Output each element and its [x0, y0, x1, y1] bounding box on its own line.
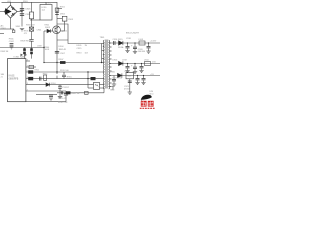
wire snubber loop: [57, 24, 68, 40]
svg-text:6: 6: [27, 71, 28, 73]
wire zener drop lower: [59, 88, 61, 96]
svg-text:T901: T901: [100, 37, 106, 39]
capacitor C927: [136, 79, 140, 80]
watermark caption: [140, 107, 155, 109]
capacitor C902: [10, 44, 14, 46]
wire secondary stub y86.5: [109, 87, 113, 91]
svg-text:C902: C902: [9, 41, 15, 43]
ground under C912: [49, 98, 53, 100]
junction x44 y62.5: [43, 62, 44, 63]
svg-text:KA3S: KA3S: [9, 75, 15, 78]
svg-text:220V: 220V: [1, 28, 7, 30]
svg-text:C906: C906: [25, 14, 31, 16]
junction rail1 C921: [148, 42, 149, 43]
svg-text:PC817: PC817: [63, 87, 70, 89]
regulator IC902: [126, 72, 134, 79]
wire B plus feed to primary: [68, 40, 102, 44]
svg-text:R916 2.2K: R916 2.2K: [58, 102, 68, 104]
wire filter box top link: [45, 2, 47, 4]
svg-text:D903: D903: [45, 27, 51, 29]
svg-text:R911: R911: [35, 70, 39, 72]
junction rail2 C925: [134, 63, 135, 64]
junction rail2 C926: [141, 63, 142, 64]
svg-text:15V: 15V: [152, 61, 156, 63]
resistor R909: [23, 48, 26, 51]
svg-text:T901: T901: [46, 2, 52, 4]
wire IC pin rail Vcc y72: [26, 71, 104, 73]
watermark char 2 strokes: [148, 101, 153, 106]
resistor R915 series: [91, 77, 96, 80]
wire branch R901: [57, 8, 62, 10]
svg-text:100/160: 100/160: [138, 51, 146, 53]
wire bridge top to rail: [10, 2, 12, 5]
resistor R910: [30, 48, 33, 51]
inductor L903: [139, 41, 145, 45]
wire IC pin8 stub: [26, 60, 30, 62]
capacitor C906: [20, 14, 24, 16]
wire NTC branch lower: [31, 19, 33, 20]
resistor R910b: [30, 52, 33, 55]
wire C911 top lead: [65, 91, 67, 93]
wire C924 drop: [127, 64, 129, 71]
junction x88 y78.6: [87, 78, 88, 79]
junction x44 y47.5: [43, 47, 44, 48]
wire rail to C903: [57, 18, 62, 20]
bridge rectifier D901: [4, 5, 17, 18]
wire IC pin rail y78.6: [26, 78, 104, 80]
junction bridge right: [21, 11, 22, 12]
svg-text:W.cn: W.cn: [150, 93, 154, 95]
svg-text:C919: C919: [122, 59, 128, 61]
svg-text:R906 472: R906 472: [26, 25, 36, 27]
diode D903: [47, 29, 51, 33]
svg-text:4: 4: [27, 77, 28, 79]
capacitor C912: [49, 95, 53, 96]
svg-text:C915: C915: [77, 48, 83, 50]
svg-text:8: 8: [27, 60, 28, 62]
svg-text:L901: L901: [7, 1, 11, 3]
resistor R911: [28, 70, 33, 73]
IC901 body: [8, 59, 26, 102]
svg-text:2: 2: [27, 90, 28, 92]
ground under C928: [141, 83, 145, 85]
svg-text:C903: C903: [68, 19, 74, 21]
wire opto right upper stub: [100, 84, 105, 86]
svg-text:R914: R914: [43, 73, 48, 75]
svg-text:C904: C904: [37, 30, 43, 32]
svg-text:R903: R903: [23, 1, 28, 3]
transformer pin dots: [111, 47, 112, 84]
capacitor C904 vertical: [29, 40, 33, 42]
transformer right pin stubs: [110, 43, 111, 87]
watermark swoosh: [141, 95, 152, 100]
wire C908 leads on main rail: [56, 72, 58, 79]
diode D906: [118, 73, 122, 77]
junction x57 y72: [56, 71, 57, 72]
wire C911 bottom lead: [65, 95, 67, 102]
wire bottom link to filter box: [30, 19, 40, 21]
svg-text:BSC25-N0299: BSC25-N0299: [126, 33, 140, 35]
wire IC pin3 rail y91: [26, 90, 66, 92]
wire base feed: [44, 30, 53, 32]
transistor Q901: [53, 26, 61, 34]
junction rail3 C928: [143, 75, 144, 76]
wire C928 drop: [143, 76, 145, 83]
wire main primary rail: [56, 2, 58, 72]
wire opto right lower stub: [100, 87, 105, 89]
wire spark gap down: [31, 31, 33, 39]
svg-text:AC: AC: [1, 24, 4, 27]
wire top AC rail: [2, 1, 58, 3]
wire fuse drop: [13, 29, 15, 30]
watermark char 1 strokes: [141, 101, 146, 106]
svg-text:R909 R910: R909 R910: [21, 41, 32, 43]
watermark swoosh tail: [141, 100, 144, 103]
resistor R912: [28, 77, 33, 80]
wire feedback lower rail y92.8: [57, 92, 104, 94]
resistor R909b: [23, 52, 26, 55]
svg-text:R919 100: R919 100: [60, 70, 70, 72]
wire NTC to spark gap: [31, 19, 33, 27]
svg-text:D906: D906: [110, 72, 116, 74]
wire secondary rail1 y43: [109, 42, 160, 44]
svg-text:C905: C905: [25, 9, 31, 11]
wire AC input line lower: [0, 28, 14, 30]
wire vertical x88: [87, 72, 89, 88]
wire C903 down: [60, 21, 64, 31]
svg-text:100K: 100K: [45, 49, 50, 51]
ground under regulator: [128, 92, 132, 94]
wire primary return horizontal: [44, 62, 102, 64]
capacitor C926: [140, 67, 144, 68]
wire bridge bottom drop: [10, 18, 12, 29]
diode mark a: [21, 54, 24, 57]
inductor L904: [145, 62, 151, 66]
resistor R921: [85, 91, 89, 94]
svg-text:0680RFB: 0680RFB: [9, 79, 19, 81]
capacitor C914: [112, 80, 116, 81]
ground under C924: [125, 71, 129, 73]
wire zener drop upper: [59, 85, 61, 87]
svg-text:470/16: 470/16: [124, 89, 131, 91]
wire C926 drop: [141, 64, 143, 71]
svg-text:+: +: [131, 65, 133, 68]
junction rail3 C927: [137, 75, 138, 76]
resistor R901: [55, 8, 59, 11]
thermistor TH901: [29, 12, 33, 19]
spark gap SG901: [29, 27, 33, 31]
transformer T901 core left: [106, 40, 107, 89]
wire C925 drop: [134, 64, 136, 72]
ground under zener: [58, 96, 62, 98]
wire regulator ground lead: [129, 79, 131, 92]
svg-text:R917 1K: R917 1K: [72, 93, 80, 95]
wire C921 drop: [148, 43, 150, 51]
svg-text:471: 471: [24, 33, 27, 35]
svg-text:103: 103: [85, 53, 88, 55]
svg-text:1N4148: 1N4148: [59, 49, 67, 51]
ground under C925: [133, 72, 137, 74]
svg-text:R901: R901: [60, 7, 66, 9]
wire filter cap rail: [21, 2, 23, 26]
capacitor C921: [147, 47, 151, 48]
diode D910: [46, 83, 50, 87]
capacitor C920 electrolytic: [133, 47, 137, 48]
resistor R917: [66, 91, 71, 94]
capacitor C917: [126, 47, 130, 48]
wire opto left lower: [88, 87, 94, 89]
wire AC stub second: [0, 33, 4, 35]
capacitor C908 branch: [62, 72, 66, 79]
wire transformer left stub y58: [102, 58, 105, 60]
transformer T901 secondary winding: [109, 40, 110, 89]
junction x101.5 y62.5: [101, 62, 102, 63]
wire transformer pin1 left stub: [102, 43, 105, 45]
wire IC pin7 stub: [26, 66, 36, 68]
wire secondary rail3 y75.5: [109, 75, 160, 77]
svg-text:3: 3: [27, 83, 28, 85]
wire IC pin rail feedback y84.6: [26, 84, 94, 86]
watermark char 2: [148, 101, 154, 107]
diode D902: [55, 13, 59, 15]
junction x88 y72: [87, 71, 88, 72]
svg-text:C908: C908: [37, 46, 42, 48]
wire secondary rail2 y63.5: [109, 63, 160, 65]
svg-text:D916: D916: [113, 59, 119, 61]
wire C927 drop: [137, 76, 139, 83]
wire transformer left stub y62: [102, 62, 105, 64]
capacitor C910 series: [39, 77, 41, 81]
zener ZD901: [58, 86, 62, 88]
ground under C921: [146, 51, 150, 53]
wire sense rail y94.6: [36, 94, 57, 96]
svg-text:D902: D902: [60, 13, 66, 15]
svg-text:R913: R913: [77, 53, 83, 55]
ground under C920: [133, 52, 137, 54]
wire transformer left stub y50: [102, 50, 105, 52]
wire primary return vertical: [101, 44, 103, 63]
svg-text:C918: C918: [126, 38, 132, 40]
ground under C914: [112, 84, 116, 86]
capacitor C922 on regulator ground: [128, 81, 132, 83]
svg-text:GND: GND: [110, 89, 115, 91]
ground under C927: [135, 83, 139, 85]
svg-text:C922 R920: C922 R920: [112, 77, 123, 79]
transformer T901 primary winding: [103, 40, 104, 89]
svg-text:S901: S901: [16, 26, 22, 28]
diode D916: [119, 61, 123, 65]
wire R910 top lead: [31, 48, 33, 49]
svg-text:R902: R902: [45, 25, 50, 27]
svg-text:+5V: +5V: [150, 74, 154, 76]
wire transformer left stub y46: [103, 46, 105, 48]
capacitor C924: [126, 67, 130, 68]
svg-text:R915: R915: [67, 76, 73, 78]
capacitor C925 electrolytic: [133, 67, 137, 68]
wire IC bottom rail: [26, 101, 66, 103]
fuse F901: [12, 30, 15, 33]
wire NTC branch upper: [31, 2, 33, 12]
junction x57 y62.5: [56, 62, 57, 63]
svg-text:IC901 KA3S: IC901 KA3S: [14, 56, 27, 59]
junction rail1 C917: [127, 42, 128, 43]
opto coupler PC901: [94, 82, 100, 89]
svg-text:+: +: [131, 45, 133, 48]
svg-text:C907: C907: [60, 53, 66, 55]
ground under C917: [125, 51, 129, 53]
capacitor C907: [55, 51, 59, 53]
capacitor C928: [142, 79, 146, 80]
wire feedback rail riser: [103, 88, 105, 93]
capacitor C909: [29, 65, 34, 68]
svg-text:7: 7: [27, 66, 28, 68]
svg-text:C913 473: C913 473: [58, 98, 68, 100]
ground near C906: [20, 29, 24, 31]
capacitor C916 series: [114, 41, 116, 45]
svg-text:7805: 7805: [127, 76, 132, 78]
wire AC input line upper: [0, 11, 4, 13]
wire C904 down: [31, 41, 33, 47]
junction rail1 C920: [134, 42, 135, 43]
line filter box LF901: [40, 5, 52, 21]
wire bridge right to cap rail: [17, 11, 22, 13]
svg-text:R903 1M: R903 1M: [1, 51, 9, 53]
svg-text:1a2: 1a2: [42, 9, 46, 11]
wire R910 bottom lead: [31, 54, 33, 59]
resistor R914 vertical: [44, 75, 47, 80]
wire transformer left stub y54: [103, 54, 105, 56]
svg-text:1N: 1N: [85, 45, 88, 47]
diode D915: [119, 41, 123, 45]
capacitor C905: [20, 9, 24, 11]
svg-text:RU3A: RU3A: [118, 46, 124, 49]
svg-text:C916 D915: C916 D915: [113, 39, 124, 41]
diode mark b: [25, 54, 28, 57]
capacitor C903: [62, 16, 67, 21]
junction rail2 C924: [127, 63, 128, 64]
wire base feed vertical: [43, 31, 45, 63]
svg-text:+115V: +115V: [150, 41, 157, 43]
watermark char 1: [141, 101, 147, 107]
wire startup line: [0, 47, 44, 49]
wire R909 bottom lead: [24, 54, 26, 59]
wire C917 drop: [127, 43, 129, 51]
wire R909 top lead: [24, 48, 26, 49]
svg-text:Q901: Q901: [62, 31, 68, 33]
ground under C902: [10, 47, 14, 49]
wire C914 drop: [113, 76, 115, 85]
ground under C926: [139, 71, 143, 73]
svg-text:21: 21: [1, 77, 3, 79]
resistor R908: [60, 61, 66, 64]
capacitor C911: [64, 94, 68, 95]
capacitor C913 series: [61, 91, 62, 94]
wire C920 drop: [134, 43, 136, 52]
svg-text:R907: R907: [59, 59, 65, 61]
